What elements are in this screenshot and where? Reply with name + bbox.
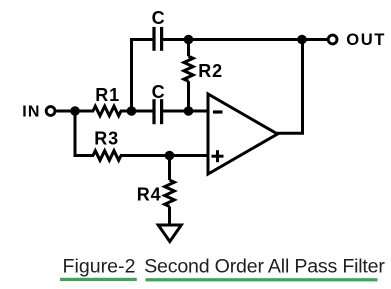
resistor R3 <box>93 151 121 161</box>
junction non-inverting input node <box>165 151 175 161</box>
op-amp inverting pin mark <box>213 110 223 113</box>
caption title <box>144 255 385 277</box>
wire top row to output node <box>189 38 304 41</box>
svg-text:R2: R2 <box>198 61 223 81</box>
junction R2 top <box>184 35 194 45</box>
junction output node <box>297 35 307 45</box>
label R1 <box>95 85 120 105</box>
op-amp U1 <box>208 94 278 174</box>
label C2 value C <box>152 82 166 102</box>
wire IN terminal to R1 <box>55 110 94 113</box>
wire input node down to R3 row <box>75 111 94 156</box>
terminal IN <box>46 107 55 116</box>
wire R3 to op-amp non-inverting input <box>120 154 208 157</box>
op-amp non-inverting pin mark <box>212 150 224 162</box>
wire C2 to op-amp inverting input <box>163 110 208 113</box>
terminal OUT <box>328 35 337 44</box>
svg-text:C: C <box>152 82 166 102</box>
caption figure number underline <box>60 278 137 281</box>
svg-text:R4: R4 <box>137 184 162 204</box>
junction R1 / top branch <box>127 106 137 116</box>
wire branch up to top row <box>132 40 153 112</box>
wire op-amp output feedback to output node <box>277 40 303 134</box>
svg-text:OUT: OUT <box>346 30 386 49</box>
node OUT label <box>346 30 386 49</box>
junction inverting input node <box>184 106 194 116</box>
resistor R4 <box>165 156 175 226</box>
node IN label <box>22 103 40 120</box>
capacitor C1 top <box>154 27 162 51</box>
resistor R2 <box>184 40 193 112</box>
label C1 value C <box>152 8 166 28</box>
wire output node to OUT terminal <box>302 38 328 41</box>
svg-text:Figure-2: Figure-2 <box>63 255 136 277</box>
svg-text:Second Order All Pass Filter: Second Order All Pass Filter <box>144 255 385 277</box>
svg-text:R3: R3 <box>94 129 119 149</box>
svg-text:R1: R1 <box>95 85 120 105</box>
wire R1 to capacitor C2 <box>120 110 153 113</box>
svg-text:IN: IN <box>22 103 40 120</box>
label R3 <box>94 129 119 149</box>
wire C1 to junction R2 top <box>163 38 190 41</box>
junction input node <box>70 106 80 116</box>
capacitor C2 middle <box>154 99 162 124</box>
ground <box>158 225 181 242</box>
resistor R1 <box>93 106 121 116</box>
label R4 <box>137 184 162 204</box>
caption figure number <box>63 255 136 277</box>
caption title underline <box>146 278 378 281</box>
label R2 <box>198 61 223 81</box>
svg-text:C: C <box>152 8 166 28</box>
